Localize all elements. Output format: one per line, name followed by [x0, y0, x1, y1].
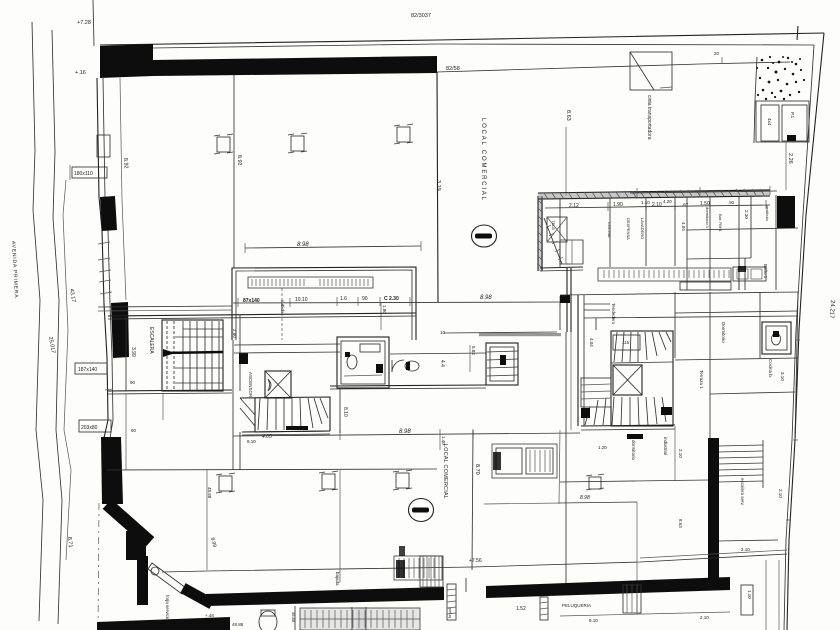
svg-text:10.10: 10.10 — [295, 297, 308, 303]
lines y293 — [560, 292, 798, 295]
column P6 — [393, 470, 412, 490]
column P3 — [394, 124, 413, 144]
interior column line x234 — [233, 75, 235, 268]
stair1 treads lower — [175, 368, 223, 383]
svg-text:2.80: 2.80 — [232, 329, 237, 338]
corridor line center — [390, 353, 486, 354]
stair1 left wall line — [125, 318, 127, 391]
storeroom box outer — [232, 267, 416, 340]
dim 5.84 — [469, 345, 471, 372]
svg-text:1.52: 1.52 — [516, 606, 526, 612]
right elevator box — [613, 365, 642, 395]
svg-text:8.63: 8.63 — [678, 519, 683, 528]
right stair fan top — [614, 332, 671, 362]
stair1 arrow line — [163, 352, 223, 353]
jamb box 2 below wall — [540, 597, 548, 620]
bottom-left chamfer: diagonal quad — [107, 504, 150, 542]
service stair right — [718, 440, 763, 488]
right stair blobs — [581, 408, 590, 418]
west wall inner line — [103, 78, 113, 438]
vertical x473 — [472, 430, 473, 570]
west wall tick rows — [98, 242, 110, 244]
closet hatched long box — [598, 268, 731, 281]
svg-text:8.71: 8.71 — [66, 537, 73, 548]
right stair left room boxes — [560, 303, 596, 330]
door leaf slanted — [148, 563, 186, 594]
dim 1.80 tick — [380, 303, 382, 330]
right wing vertical partitions mid — [675, 292, 798, 440]
black block top right wing — [777, 196, 795, 228]
bottom right dim verticals — [766, 560, 779, 630]
svg-text:.67: .67 — [682, 202, 689, 207]
line under top band to right — [437, 62, 790, 72]
svg-text:8.63: 8.63 — [565, 110, 571, 121]
svg-text:90: 90 — [131, 428, 137, 433]
svg-text:industrial: industrial — [663, 437, 668, 455]
svg-text:4.4: 4.4 — [439, 360, 445, 367]
svg-text:Cocina b.: Cocina b. — [768, 359, 773, 378]
svg-text:+.16: +.16 — [75, 70, 86, 76]
stair1 room bottom wall — [108, 390, 232, 391]
hall west wall hatched upper — [538, 196, 543, 271]
svg-text:C 2.30: C 2.30 — [384, 296, 399, 302]
west wall black chunk 3 — [101, 437, 123, 504]
hatched box bottom center — [394, 556, 442, 580]
svg-text:9.10: 9.10 — [589, 618, 598, 623]
svg-text:Dormitorio: Dormitorio — [721, 322, 726, 343]
svg-text:25.017: 25.017 — [47, 336, 56, 354]
svg-text:+.48: +.48 — [205, 613, 214, 618]
bathroom box center — [337, 337, 389, 388]
column P1 — [214, 134, 233, 154]
svg-text:DESPENSA: DESPENSA — [626, 218, 631, 240]
svg-text:24.217: 24.217 — [828, 300, 835, 319]
svg-text:4.04: 4.04 — [681, 222, 686, 231]
cinta box — [630, 52, 672, 90]
stair1 box — [162, 320, 223, 391]
svg-text:COCINA: COCINA — [607, 222, 612, 238]
cinta dim arrow — [660, 87, 672, 88]
svg-text:2.10: 2.10 — [741, 547, 750, 552]
shop2 east wall x566 — [565, 332, 567, 588]
svg-text:8.10: 8.10 — [342, 407, 348, 417]
svg-text:peluq: peluq — [448, 608, 453, 618]
elevator door lens — [268, 379, 271, 391]
svg-text:1.10: 1.10 — [747, 590, 752, 599]
verticals to y470 line — [125, 394, 127, 470]
wc blob — [405, 361, 419, 371]
column P2 — [288, 133, 307, 153]
svg-text:2.10: 2.10 — [700, 615, 709, 620]
dim 22.6 right — [785, 142, 787, 190]
svg-text:1.20: 1.20 — [598, 445, 607, 450]
svg-text:48.88: 48.88 — [232, 622, 244, 627]
svg-text:43.17: 43.17 — [68, 288, 76, 303]
right low boxes x746 — [741, 585, 753, 615]
terrace boundary left — [754, 57, 757, 143]
center wall x437 — [437, 72, 438, 302]
bath box right — [762, 322, 791, 354]
svg-text:cinta transportadora: cinta transportadora — [646, 95, 652, 140]
dashed property line bottom-left — [98, 503, 99, 630]
small boxes right of gap — [623, 585, 641, 613]
unit marker circle 1 — [472, 225, 497, 247]
svg-text:87x140: 87x140 — [243, 298, 260, 304]
svg-text:187x140: 187x140 — [78, 367, 97, 373]
svg-text:+7.28: +7.28 — [77, 20, 91, 26]
svg-text:vestibulo: vestibulo — [765, 205, 770, 222]
window label 203x80 — [79, 420, 111, 432]
long line y470 — [107, 469, 437, 470]
stair2 arrow blob — [286, 426, 308, 430]
right unit inner wall x578 — [577, 295, 579, 426]
dark band top of duplex stair — [479, 333, 561, 336]
svg-text:2.10: 2.10 — [678, 449, 683, 458]
toilet bottom — [259, 611, 277, 630]
gap jamb hatched box — [447, 584, 456, 620]
column P5 — [319, 471, 338, 491]
center rooms bottom wall — [330, 385, 486, 386]
kitchen counter hatched left — [739, 258, 745, 290]
verticals bottom center — [339, 470, 341, 582]
street kerb line A (Avenida Primera) — [32, 22, 43, 621]
tele riser box — [547, 217, 567, 242]
extra verticals bottom right — [636, 502, 638, 612]
right boundary small ticks — [786, 340, 800, 520]
svg-text:3.10: 3.10 — [780, 372, 785, 381]
unit marker circle 2 — [409, 499, 434, 522]
bottom strip texture fills — [300, 608, 420, 630]
svg-text:8.92: 8.92 — [236, 155, 242, 166]
svg-text:ESCALERA: ESCALERA — [148, 327, 154, 354]
svg-text:8.10: 8.10 — [247, 439, 256, 444]
stair1 treads upper — [167, 321, 219, 390]
svg-text:2.12: 2.12 — [569, 203, 579, 209]
bottom-left corner wall strip — [97, 617, 230, 630]
right stair fan bottom — [585, 397, 666, 425]
hall west wall lower — [566, 268, 568, 332]
right wing top inner dim arrow — [659, 87, 661, 89]
svg-text:82/3037: 82/3037 — [411, 13, 431, 19]
shelf hatched box — [248, 277, 373, 288]
elevator shaft box — [265, 371, 291, 398]
svg-text:+7.56: +7.56 — [469, 558, 482, 564]
line y359 right — [675, 358, 798, 360]
top facade inner line — [153, 44, 814, 48]
svg-text:20: 20 — [714, 51, 720, 56]
right boundary inner line — [784, 45, 814, 630]
elevator X — [265, 371, 291, 398]
svg-text:LOCAL COMERCIAL: LOCAL COMERCIAL — [442, 444, 448, 499]
svg-text:forja servicios: forja servicios — [165, 595, 170, 623]
svg-text:1.90: 1.90 — [613, 202, 623, 208]
column P4 — [216, 473, 235, 493]
svg-text:ASCENSOR: ASCENSOR — [248, 372, 253, 398]
subida arrow dashed — [281, 288, 283, 340]
corridor lines above stair2 — [234, 344, 340, 345]
line y333 — [444, 332, 557, 333]
bath door arc — [392, 360, 404, 372]
top wall hatched band right wing — [538, 189, 770, 200]
vertical x207 — [206, 470, 208, 570]
wc box under wall gap — [420, 556, 443, 587]
svg-text:8.98: 8.98 — [480, 295, 492, 301]
top right terrace dim row — [630, 191, 777, 193]
west wall outer line — [97, 78, 108, 438]
svg-text:bajada: bajada — [335, 572, 340, 586]
junction black x241 — [239, 353, 248, 364]
svg-text:escalera serv.: escalera serv. — [740, 478, 745, 506]
right stair small flight left — [581, 378, 611, 407]
terrace box blob — [787, 135, 796, 141]
svg-text:8.70: 8.70 — [474, 464, 480, 475]
svg-text:8.98: 8.98 — [399, 429, 411, 435]
stair2 fan corner left — [240, 398, 255, 415]
svg-text:2.30: 2.30 — [744, 210, 749, 219]
svg-text:1.10: 1.10 — [641, 200, 650, 205]
right stair mid line — [611, 362, 673, 363]
svg-text:Baño 1: Baño 1 — [763, 264, 768, 279]
svg-text:8.99: 8.99 — [209, 537, 217, 548]
stair2 fan treads — [258, 398, 328, 430]
svg-text:8.98: 8.98 — [297, 242, 309, 248]
chain ticks — [238, 296, 560, 307]
street dimension line C — [63, 180, 71, 560]
kitchen counter bottom right unit — [492, 444, 557, 478]
vertical dim x560 lower — [559, 430, 560, 504]
dim line 8.98 over storeroom — [245, 246, 421, 248]
right boundary outer line — [787, 33, 824, 630]
bottom right rooms lines — [560, 480, 708, 482]
svg-text:2.10: 2.10 — [652, 202, 662, 208]
svg-text:90: 90 — [362, 296, 368, 302]
hatched counters bottom strip — [300, 608, 420, 630]
west wall black chunk 2 — [111, 302, 129, 358]
svg-text:LAVADERO: LAVADERO — [640, 218, 645, 239]
dim ticks top right area — [721, 57, 723, 64]
street kerb line B — [52, 30, 62, 624]
svg-text:3.19: 3.19 — [435, 180, 441, 191]
svg-text:LOCAL COMERCIAL: LOCAL COMERCIAL — [480, 118, 486, 202]
dim line inside west edge — [120, 78, 126, 300]
svg-text:10: 10 — [440, 330, 446, 335]
svg-text:90: 90 — [130, 380, 136, 385]
stair1 room top wall — [108, 313, 416, 316]
long dim line y302 — [233, 302, 566, 303]
svg-text:2.26: 2.26 — [787, 153, 793, 164]
top-right corner tick — [797, 26, 798, 40]
small stair box right unit duplex — [486, 343, 518, 385]
svg-text:48.88: 48.88 — [207, 487, 212, 499]
svg-text:180x110: 180x110 — [74, 171, 93, 177]
bottom main wall right segment — [486, 577, 730, 598]
svg-text:P.1: P.1 — [790, 112, 795, 119]
svg-text:1.6: 1.6 — [340, 296, 347, 302]
stair1 mid rail — [175, 336, 223, 338]
svg-text:8.92: 8.92 — [122, 158, 129, 169]
vertical x340 — [339, 389, 341, 433]
terrace box left cell — [761, 105, 779, 141]
interior line y570 — [162, 554, 787, 572]
terrace planting dots — [756, 56, 805, 100]
stair2 bottom double — [242, 431, 330, 432]
vertical black wall right — [708, 438, 719, 584]
room partitions right wing verticals — [560, 195, 776, 290]
dim 8.98 mid row y435 — [233, 433, 580, 436]
top facade outer line — [100, 33, 824, 45]
right stair bottom double — [581, 425, 675, 426]
west wall window box — [97, 135, 110, 157]
right mid block line y318 — [584, 316, 798, 318]
stair2 outer — [255, 398, 330, 432]
bathroom fixtures — [347, 355, 357, 369]
svg-text:TELE: TELE — [551, 220, 556, 230]
svg-text:8.98: 8.98 — [580, 495, 590, 501]
svg-text:.91: .91 — [728, 200, 735, 205]
terrace box right cell — [782, 105, 807, 141]
dim 8.63 vertical line x565 — [565, 127, 567, 196]
top-left corner tick +7.28 — [93, 0, 94, 46]
column P7 — [586, 474, 604, 490]
svg-text:PELUQUERIA: PELUQUERIA — [562, 603, 591, 608]
svg-text:4x4: 4x4 — [767, 118, 772, 126]
svg-text:5.84: 5.84 — [471, 346, 476, 355]
entry steps — [560, 240, 583, 264]
window label 187x140 — [75, 363, 107, 374]
north wall black band — [153, 56, 437, 76]
svg-text:3.99: 3.99 — [130, 347, 136, 357]
entry bottom wall — [540, 267, 583, 268]
svg-text:4.04: 4.04 — [589, 338, 594, 347]
diagonal wall lower — [183, 588, 212, 604]
svg-text:dormitorio: dormitorio — [631, 440, 636, 461]
svg-text:Tendedero: Tendedero — [611, 303, 616, 325]
svg-text:203x80: 203x80 — [81, 425, 98, 431]
window label 180x110 — [72, 167, 107, 178]
junction black at y295 — [560, 295, 570, 303]
svg-text:subida: subida — [280, 300, 285, 314]
bath counter boxes x613 — [613, 335, 640, 350]
dim arrows under counter — [484, 503, 560, 504]
terrace box outer — [756, 101, 809, 142]
bottom main wall left segment — [206, 587, 444, 606]
svg-text:4.05: 4.05 — [262, 434, 272, 440]
svg-text:2.10: 2.10 — [778, 489, 783, 498]
north wall black band left pier — [100, 44, 153, 78]
svg-text:dormitorio 1: dormitorio 1 — [705, 207, 710, 229]
stair zone divider x240 — [239, 315, 241, 391]
right stair room outer — [611, 331, 673, 426]
entry ramp diagonal — [544, 218, 562, 264]
bottom dim chain right — [560, 612, 730, 616]
svg-text:AVENIDA PRIMERA: AVENIDA PRIMERA — [10, 241, 19, 299]
svg-text:Terraza 1: Terraza 1 — [699, 370, 704, 389]
west wall black chunk 1 — [100, 196, 117, 231]
dim chain y207 right wing — [545, 205, 770, 208]
svg-text:4.20: 4.20 — [663, 199, 672, 204]
